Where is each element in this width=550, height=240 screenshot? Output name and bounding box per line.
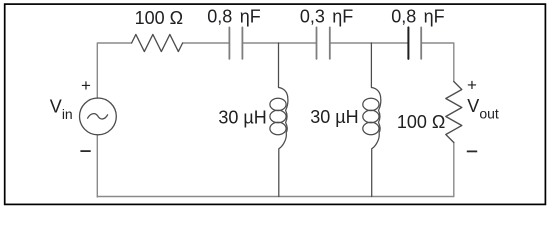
svg-text:+: + [81,76,91,95]
label minus of V_out [467,150,477,152]
svg-text:+: + [467,76,477,95]
svg-text:30 µH: 30 µH [310,107,358,127]
svg-text:100 Ω: 100 Ω [135,8,184,28]
wire: R2 bottom to bottom rail [453,143,455,197]
inductor L2 coil 30 uH [371,43,380,197]
capacitor C3 right plate [420,27,422,59]
label minus of source [80,150,90,152]
wire: source bottom to bottom rail [96,135,98,197]
svg-text:100 Ω: 100 Ω [397,112,446,132]
svg-text:0,3: 0,3 [300,7,325,27]
svg-text:30 µH: 30 µH [218,107,266,127]
svg-text:0,8: 0,8 [391,7,416,27]
wire: C2 right plate to C3 left plate (through node B) [330,42,409,44]
svg-text:ηF: ηF [424,7,445,27]
wire bottom rail [97,196,454,198]
capacitor C2 left plate [316,27,318,59]
capacitor C1 right plate [241,27,243,59]
capacitor C1 left plate [228,27,230,59]
wire: C1 right plate to C2 left plate (through node A) [242,42,316,44]
svg-text:0,8: 0,8 [207,7,232,27]
wire top: source corner to R1 [97,43,131,98]
source V_in circle [80,98,117,135]
wire: R1 to C1 left plate [183,42,230,44]
svg-text:ηF: ηF [332,7,353,27]
inductor L1 coil 30 uH [279,43,288,197]
source sine tilde [88,114,108,119]
capacitor C2 right plate [329,27,331,59]
resistor R2 zigzag 100 ohm [446,82,462,143]
resistor R1 zigzag 100 ohm [132,34,183,51]
capacitor C3 left plate [407,27,409,59]
svg-text:ηF: ηF [240,7,261,27]
wire: C3 right plate to right corner and down to R2 [421,43,454,82]
